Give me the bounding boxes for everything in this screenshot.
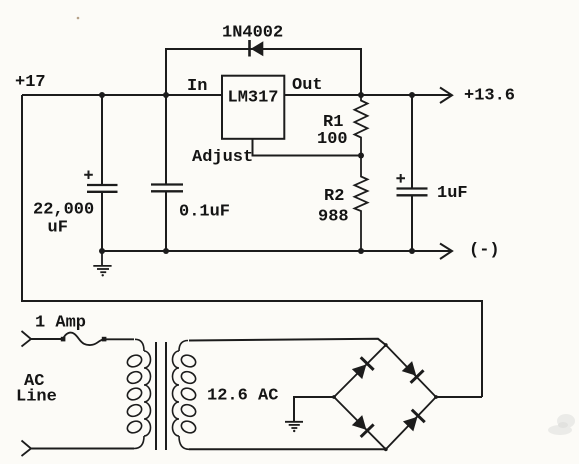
svg-text:Out: Out	[292, 76, 323, 95]
resistor R2	[355, 156, 368, 252]
svg-text:R2: R2	[324, 187, 344, 206]
tiny scan speck top left	[77, 17, 80, 20]
ground symbol at C1/C2 rail	[93, 251, 111, 272]
svg-text:988: 988	[318, 208, 349, 227]
junction dots top rail	[99, 92, 415, 254]
svg-text:22,000: 22,000	[33, 201, 94, 220]
bridge vertex dots	[332, 343, 438, 451]
svg-text:(-): (-)	[469, 241, 500, 260]
wire: secondary bottom to bridge bottom vertex	[189, 448, 386, 450]
fuse terminal dot left	[61, 337, 66, 342]
svg-text:100: 100	[317, 130, 348, 149]
svg-text:1uF: 1uF	[437, 184, 468, 203]
capacitor C3 1uF plates	[397, 189, 428, 196]
regulator U1 LM317 box	[222, 76, 284, 139]
capacitor C1 22,000uF leads	[101, 95, 103, 251]
resistor R1	[355, 95, 368, 156]
bridge diode D2 top-left (points to top vertex)	[351, 356, 375, 380]
AC input terminal bottom	[22, 441, 32, 457]
bridge diode D4 bottom-left (points to bottom vertex)	[351, 414, 375, 438]
bridge diode D5 bottom-right (points to right vertex)	[402, 409, 426, 433]
wire: LM317 Out pin to +13.6 arrow	[284, 94, 451, 96]
svg-text:LM317: LM317	[228, 89, 279, 108]
fuse F1 squiggle	[63, 333, 104, 345]
svg-text:+13.6: +13.6	[464, 87, 515, 106]
ground dot	[102, 274, 104, 276]
wire: input wire +17 to LM317 In pin	[22, 94, 222, 96]
wire: terminal to fuse	[31, 338, 63, 340]
svg-text:uF: uF	[48, 219, 68, 238]
transformer T1 secondary winding	[173, 341, 198, 450]
svg-text:12.6 AC: 12.6 AC	[207, 387, 278, 406]
fuse terminal dot right	[102, 337, 107, 342]
wire: diode branch loop from In node up over to Out rail	[166, 49, 361, 94]
plus sign C3	[396, 174, 405, 183]
wire: bridge left vertex to ground	[294, 397, 334, 421]
capacitor C2 0.1uF plates	[151, 185, 183, 192]
diode D1 1N4002 cathode bar	[248, 40, 251, 57]
transformer T1 primary winding	[126, 339, 151, 448]
wire: bottom terminal to transformer	[31, 448, 134, 450]
ground dot at bridge	[293, 430, 295, 432]
svg-text:1N4002: 1N4002	[222, 24, 283, 43]
svg-text:In: In	[187, 77, 207, 96]
svg-text:0.1uF: 0.1uF	[179, 203, 230, 222]
capacitor C3 1uF leads	[411, 95, 413, 251]
capacitor C2 0.1uF leads	[165, 95, 167, 251]
svg-text:Line: Line	[16, 388, 57, 407]
plus sign C1	[84, 171, 93, 180]
arrow head (-) output	[440, 244, 452, 260]
arrow head +13.6 output	[440, 88, 452, 104]
transformer T1 core	[156, 342, 166, 450]
wire: bridge right vertex to output drop	[436, 396, 482, 398]
wire: left rail down, bottom run, and drop to bridge + output	[22, 95, 482, 397]
ground symbol at bridge	[285, 422, 303, 428]
wire: bottom (-) rail	[102, 250, 451, 252]
wire: secondary top to bridge top vertex	[189, 339, 386, 345]
capacitor C1 22,000uF plates	[87, 185, 118, 192]
svg-text:Adjust: Adjust	[192, 148, 253, 167]
AC input terminal top	[22, 331, 32, 347]
faint scan smudge bottom right	[548, 414, 575, 435]
bridge rectifier diamond	[334, 345, 436, 449]
svg-text:+17: +17	[15, 73, 46, 92]
bridge diode D3 top-right (points to right vertex)	[400, 360, 424, 384]
svg-text:1 Amp: 1 Amp	[35, 314, 86, 333]
diode D1 1N4002 triangle	[251, 41, 263, 56]
wire: Adjust pin down and right to R1/R2 junction	[253, 139, 362, 156]
wire: fuse to transformer primary	[106, 338, 134, 340]
